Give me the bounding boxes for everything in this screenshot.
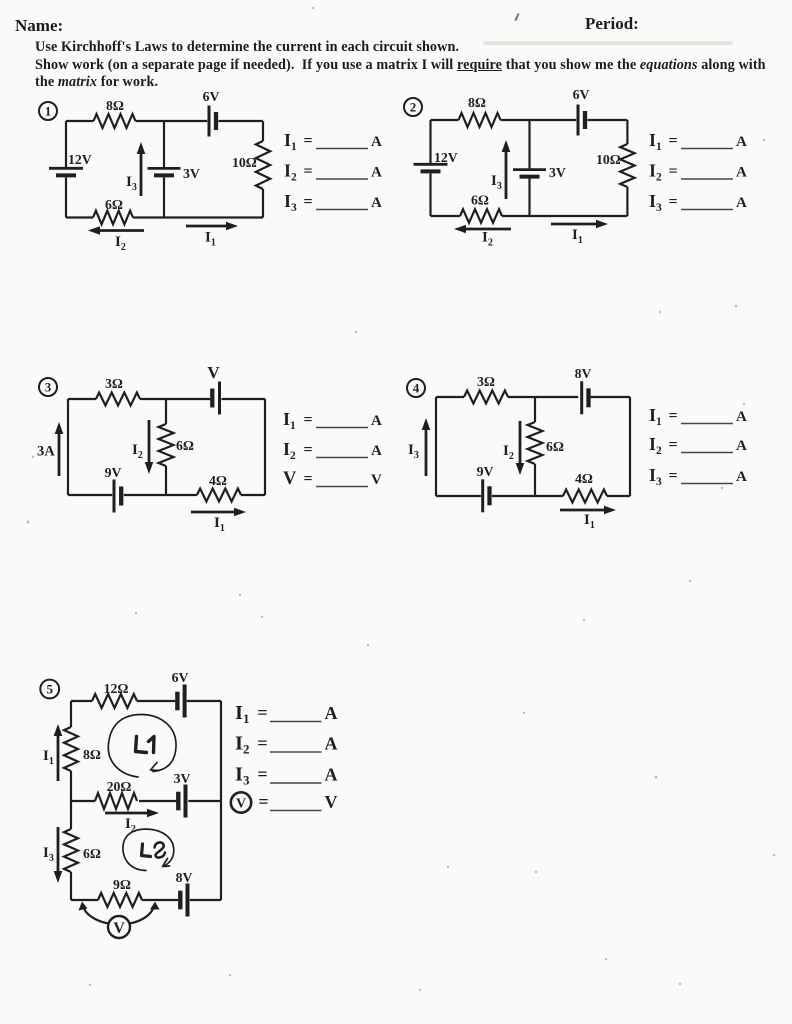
answer blank I3 C5 (235, 764, 338, 788)
svg-text:=: = (303, 442, 312, 459)
svg-text:I1: I1 (214, 515, 225, 534)
label 8V C5 (176, 870, 193, 885)
svg-text:A: A (736, 469, 747, 485)
svg-text:5: 5 (46, 682, 53, 697)
wire C2 middle upper segment (528, 120, 530, 168)
wire C3 bottom-right segment (241, 494, 265, 496)
answer blank I1 C4 (649, 405, 747, 428)
current arrow 3A C3 (55, 422, 64, 476)
label 10&#937; C1 (232, 155, 257, 170)
wire C5 left segment above 8ohm (70, 701, 72, 727)
svg-text:8Ω: 8Ω (468, 95, 486, 110)
label I2 C5 (125, 816, 136, 835)
loop annotation L1 C5 (108, 715, 176, 778)
svg-text:3V: 3V (549, 165, 566, 180)
current arrow I3 C5 (54, 827, 63, 883)
battery 12V C2 left (414, 164, 448, 171)
svg-text:=: = (668, 468, 677, 485)
svg-text:=: = (257, 703, 267, 723)
svg-text:6Ω: 6Ω (471, 193, 489, 208)
label I1 C1 (205, 230, 216, 249)
wire C4 middle upper segment (534, 397, 536, 422)
instructions paragraph (35, 39, 792, 92)
svg-text:I3: I3 (43, 845, 54, 864)
svg-text:I2: I2 (503, 443, 514, 462)
battery 8V C5 bottom (180, 884, 187, 917)
current arrow I1 C2 (551, 220, 608, 229)
label 3A C3 (37, 444, 55, 460)
resistor R 10&#937; C1 right (256, 141, 270, 189)
svg-text:12V: 12V (68, 152, 92, 167)
label 8&#937; C2 (468, 95, 486, 110)
svg-text:9Ω: 9Ω (113, 877, 131, 892)
current arrow I2 C5 (105, 809, 159, 818)
battery 6V C1 top (209, 106, 216, 137)
answer blank I1 C1 (284, 130, 382, 153)
label 10&#937; C2 (596, 152, 621, 167)
current arrow I1 C1 (186, 222, 238, 231)
answer blank I1 C2 (649, 130, 747, 153)
svg-text:6V: 6V (573, 87, 590, 102)
current arrow I1 C3 (191, 508, 246, 517)
current arrow I2 C3 (145, 420, 154, 474)
svg-text:3A: 3A (37, 444, 55, 460)
svg-text:6Ω: 6Ω (105, 197, 123, 212)
wire C1 bottom-right segment (133, 216, 263, 218)
label I2 C1 (115, 234, 126, 253)
svg-text:V: V (236, 796, 246, 811)
wire C1 top-middle segment (136, 120, 208, 122)
wire C3 bottom-left segment (68, 494, 112, 496)
svg-text:A: A (371, 443, 382, 459)
svg-text:V: V (207, 363, 220, 382)
svg-text:A: A (736, 409, 747, 425)
svg-text:3V: 3V (183, 166, 200, 181)
label 3&#937; C4 (477, 374, 495, 389)
battery 6V C2 top (578, 105, 585, 136)
answer blank I2 C4 (649, 434, 747, 457)
answer blank I2 C2 (649, 161, 747, 184)
wire C1 left lower segment (65, 177, 67, 217)
wire C2 top-middle segment (501, 119, 577, 121)
wire C1 right upper segment (262, 121, 264, 141)
current arrow I2 C1 (88, 226, 144, 235)
svg-text:I1: I1 (572, 227, 583, 246)
resistor R 9&#937; C5 bottom (98, 893, 142, 907)
answer blank I3 C2 (649, 191, 747, 214)
wire C3 bottom-middle segment (124, 494, 197, 496)
circuit 1 number badge (39, 102, 57, 120)
svg-text:I1: I1 (283, 409, 296, 432)
wire C4 middle lower segment (534, 464, 536, 496)
label 3V C2 (549, 165, 566, 180)
label 20&#937; C5 (107, 779, 132, 794)
svg-text:10Ω: 10Ω (232, 155, 257, 170)
wire C5 middle segment (139, 800, 177, 802)
current arrow I3 C2 (502, 140, 511, 199)
svg-text:=: = (303, 194, 312, 211)
label I1 C5 (43, 748, 54, 767)
label 8V C4 (575, 366, 592, 381)
voltmeter V C5 (108, 916, 130, 938)
scanner smudge top right (483, 41, 733, 45)
svg-text:1: 1 (45, 104, 52, 119)
answer blank I2 C5 (235, 733, 338, 757)
label 8&#937; C1 (106, 98, 124, 113)
label 3&#937; C3 (105, 376, 123, 391)
wire C2 left upper segment (429, 120, 431, 163)
svg-text:3: 3 (45, 380, 52, 395)
label I1 C3 (214, 515, 225, 534)
svg-text:3Ω: 3Ω (105, 376, 123, 391)
resistor R 4&#937; C4 bottom (563, 490, 607, 503)
svg-text:=: = (668, 437, 677, 454)
wire C2 top-right segment (588, 119, 628, 121)
label 4&#937; C3 (209, 473, 227, 488)
label 9&#937; C5 (113, 877, 131, 892)
scanner tick near Period (514, 13, 519, 21)
svg-text:I2: I2 (649, 434, 662, 457)
label 9V C4 (477, 464, 494, 479)
battery 9V C3 bottom (114, 480, 121, 513)
wire C1 middle upper segment (163, 121, 165, 167)
answer blank voltmeter C5 (231, 792, 338, 813)
wire C4 bottom-left segment (436, 495, 481, 497)
svg-text:12V: 12V (434, 150, 458, 165)
label 6V C1 (203, 89, 220, 104)
svg-text:9V: 9V (477, 464, 494, 479)
wire C5 top-left segment (71, 700, 92, 702)
voltmeter left lead arrow C5 (79, 902, 109, 924)
label 3V C1 (183, 166, 200, 181)
svg-text:I1: I1 (205, 230, 216, 249)
label 12&#937; C5 (104, 681, 129, 696)
svg-text:6V: 6V (172, 670, 189, 685)
svg-text:A: A (371, 195, 382, 211)
svg-text:V: V (325, 792, 338, 812)
resistor R 6&#937; C5 left (64, 829, 78, 872)
answer blank I3 C4 (649, 465, 747, 488)
circuit 4 number badge (407, 379, 425, 397)
wire C5 top-right segment (187, 700, 221, 702)
svg-text:I1: I1 (584, 512, 595, 531)
resistor R 3&#937; C3 top (96, 393, 140, 406)
wire C5 bottom-left segment (71, 899, 98, 901)
circuit 5 number badge (40, 680, 59, 699)
label 6&#937; C2 (471, 193, 489, 208)
svg-text:A: A (736, 438, 747, 454)
label I3 C1 (126, 174, 137, 193)
resistor R 10&#937; C2 right (620, 144, 634, 187)
resistor R 6&#937; C3 middle (159, 424, 174, 466)
svg-text:I2: I2 (132, 442, 143, 461)
svg-text:9V: 9V (105, 465, 122, 480)
label 6V C5 (172, 670, 189, 685)
svg-text:I3: I3 (408, 442, 419, 461)
battery 3V C5 middle (178, 785, 185, 818)
svg-text:=: = (303, 133, 312, 150)
wire C3 right wire (264, 399, 266, 495)
current arrow I1 C4 (560, 506, 616, 515)
svg-text:=: = (668, 133, 677, 150)
svg-text:8Ω: 8Ω (106, 98, 124, 113)
current arrow I1 C5 (54, 724, 63, 781)
svg-text:I1: I1 (649, 405, 662, 428)
svg-text:I3: I3 (649, 465, 662, 488)
battery 12V C1 left (49, 168, 83, 175)
svg-text:A: A (325, 703, 338, 723)
answer blank I3 C1 (284, 191, 382, 214)
svg-text:A: A (325, 765, 338, 785)
label 6&#937; C3 (176, 438, 194, 453)
battery 6V C5 top (177, 685, 184, 718)
svg-text:=: = (668, 408, 677, 425)
svg-text:4: 4 (413, 381, 420, 396)
label 12V C1 (68, 152, 92, 167)
label 4&#937; C4 (575, 471, 593, 486)
svg-text:A: A (371, 413, 382, 429)
wire C5 middle-right segment (188, 800, 221, 802)
svg-text:I3: I3 (491, 173, 502, 192)
label I1 C4 (584, 512, 595, 531)
svg-text:10Ω: 10Ω (596, 152, 621, 167)
wire C3 middle upper segment (165, 399, 167, 424)
svg-text:4Ω: 4Ω (575, 471, 593, 486)
svg-text:4Ω: 4Ω (209, 473, 227, 488)
label 6&#937; C5 (83, 846, 101, 861)
wire C5 left segment below 6ohm (70, 872, 72, 900)
wire C2 middle lower segment (528, 179, 530, 216)
svg-text:20Ω: 20Ω (107, 779, 132, 794)
svg-text:6Ω: 6Ω (176, 438, 194, 453)
svg-text:I2: I2 (235, 733, 249, 757)
circuit 3 number badge (39, 378, 57, 396)
header Name label (15, 16, 63, 36)
svg-text:A: A (325, 734, 338, 754)
svg-text:3Ω: 3Ω (477, 374, 495, 389)
label 3V C5 (174, 771, 191, 786)
label 6&#937; C4 (546, 439, 564, 454)
wire C1 top-left segment with node (66, 120, 94, 122)
label I3 C5 (43, 845, 54, 864)
resistor R 20&#937; C5 middle (95, 793, 137, 809)
svg-text:8Ω: 8Ω (83, 747, 101, 762)
wire C2 right upper segment (626, 120, 628, 144)
wire C3 left wire (67, 399, 69, 495)
resistor R 6&#937; C1 bottom (93, 211, 133, 225)
circuit 2 number badge (404, 98, 422, 116)
current arrow I3 C1 (137, 142, 146, 196)
svg-text:A: A (371, 165, 382, 181)
wire C3 top-right segment (222, 398, 266, 400)
svg-text:I3: I3 (235, 764, 250, 788)
svg-text:A: A (371, 134, 382, 150)
answer blank I2 C3 (283, 439, 382, 462)
label 9V C3 (105, 465, 122, 480)
wire C4 left wire (435, 397, 437, 496)
wire C1 top-right segment (219, 120, 264, 122)
wire C2 left lower segment (429, 173, 431, 216)
svg-text:I1: I1 (43, 748, 54, 767)
label 6V C2 (573, 87, 590, 102)
wire C4 top-right segment (590, 396, 630, 398)
svg-text:V: V (113, 920, 125, 937)
svg-text:2: 2 (410, 100, 417, 115)
svg-text:I1: I1 (284, 130, 297, 153)
wire C1 bottom-left segment (66, 216, 93, 218)
current arrow I2 C2 (454, 225, 511, 234)
current arrow I2 C4 (516, 421, 525, 475)
wire C5 bottom-right segment (190, 899, 221, 901)
label I2 C2 (482, 230, 493, 249)
label 8&#937; C5 (83, 747, 101, 762)
svg-text:=: = (303, 412, 312, 429)
label I2 C4 (503, 443, 514, 462)
wire C3 middle lower segment (165, 466, 167, 495)
wire C4 bottom-right segment (607, 495, 630, 497)
wire C3 top-left segment (68, 398, 96, 400)
wire C1 left upper segment (65, 121, 67, 167)
label I2 C3 (132, 442, 143, 461)
wire C5 bottom-middle segment (142, 899, 178, 901)
label I1 C2 (572, 227, 583, 246)
battery 8V C4 top (582, 381, 589, 414)
battery 9V C4 bottom (483, 479, 490, 512)
svg-text:12Ω: 12Ω (104, 681, 129, 696)
svg-text:I3: I3 (126, 174, 137, 193)
svg-text:=: = (258, 792, 268, 812)
wire C1 right lower segment (262, 189, 264, 218)
header Period label (585, 14, 639, 34)
loop annotation L2 C5 (123, 829, 174, 870)
wire C4 right wire (629, 397, 631, 496)
label I3 C4 (408, 442, 419, 461)
wire C2 bottom-left segment (431, 215, 461, 217)
svg-text:V: V (283, 469, 297, 489)
wire C2 bottom-right segment (502, 215, 627, 217)
svg-text:I3: I3 (284, 191, 297, 214)
label 6&#937; C1 (105, 197, 123, 212)
resistor R 3&#937; C4 top (464, 391, 508, 404)
svg-text:=: = (668, 194, 677, 211)
svg-text:8V: 8V (575, 366, 592, 381)
svg-text:I2: I2 (649, 161, 662, 184)
battery V C3 top (212, 382, 219, 415)
label 12V C2 (434, 150, 458, 165)
answer blank V C3 (283, 469, 382, 489)
wire C2 right lower segment (626, 187, 628, 216)
resistor R 8&#937; C2 top (459, 113, 501, 127)
svg-text:=: = (668, 163, 677, 180)
svg-text:=: = (257, 764, 267, 784)
label V C3 (207, 363, 220, 382)
svg-text:I1: I1 (649, 130, 662, 153)
svg-text:=: = (303, 163, 312, 180)
svg-text:8V: 8V (176, 870, 193, 885)
svg-text:I3: I3 (649, 191, 662, 214)
resistor R 4&#937; C3 bottom (197, 489, 241, 502)
svg-text:A: A (736, 165, 747, 181)
svg-text:A: A (736, 195, 747, 211)
wire C4 bottom-middle segment (492, 495, 563, 497)
wire C5 left segment between (70, 771, 72, 829)
wire C5 right wire (220, 701, 222, 900)
svg-text:A: A (736, 134, 747, 150)
answer blank I2 C1 (284, 161, 382, 184)
svg-text:I2: I2 (115, 234, 126, 253)
battery 3V C1 middle (148, 168, 181, 175)
svg-text:I2: I2 (283, 439, 296, 462)
wire C1 middle lower segment (163, 177, 165, 217)
svg-text:I1: I1 (235, 702, 249, 726)
svg-text:6Ω: 6Ω (83, 846, 101, 861)
wire C2 top-left segment (431, 119, 459, 121)
resistor R 12&#937; C5 top (92, 694, 137, 708)
svg-text:I2: I2 (284, 161, 297, 184)
answer blank I1 C3 (283, 409, 382, 432)
current arrow I3 C4 (422, 418, 431, 476)
resistor R 6&#937; C4 middle (528, 422, 543, 464)
wire C4 top-middle segment (508, 396, 578, 398)
label I3 C2 (491, 173, 502, 192)
wire C3 top-middle segment (140, 398, 210, 400)
wire C5 top-middle segment (137, 700, 175, 702)
wire C4 top-left segment (436, 396, 464, 398)
resistor R 6&#937; C2 bottom (460, 209, 502, 223)
wire C5 middle-left segment (71, 800, 95, 802)
resistor R 8&#937; C5 left (64, 727, 78, 771)
svg-text:I2: I2 (482, 230, 493, 249)
svg-text:=: = (303, 471, 312, 488)
svg-text:V: V (371, 472, 382, 488)
voltmeter right lead arrow C5 (130, 902, 160, 924)
svg-text:=: = (257, 733, 267, 753)
resistor R 8&#937; C1 top (94, 114, 136, 128)
svg-text:6Ω: 6Ω (546, 439, 564, 454)
answer blank I1 C5 (235, 702, 338, 726)
svg-text:3V: 3V (174, 771, 191, 786)
battery 3V C2 middle (513, 170, 546, 177)
svg-text:6V: 6V (203, 89, 220, 104)
